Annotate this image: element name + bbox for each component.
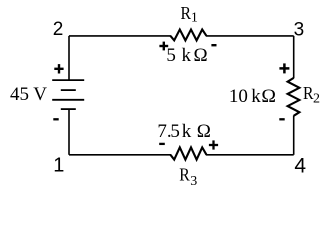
wire bottom-right segment (node 4 to R3): [206, 154, 294, 156]
resistor R2: [288, 78, 300, 116]
svg-text:R: R: [179, 164, 190, 184]
svg-text:3: 3: [294, 20, 305, 41]
wire right upper segment (node 3 to R2): [293, 36, 295, 78]
label R2: [303, 83, 320, 107]
svg-text:10k: 10k: [229, 86, 261, 107]
wire bottom-left segment (R3 to node 1): [69, 154, 171, 156]
svg-text:1: 1: [191, 11, 198, 26]
svg-text:R: R: [181, 3, 192, 23]
svg-text:5kΩ: 5kΩ: [166, 45, 207, 66]
svg-text:7.5kΩ: 7.5kΩ: [157, 121, 211, 142]
resistor R1: [171, 30, 207, 41]
polarity - (R1 right): [211, 44, 216, 46]
label R1: [181, 3, 198, 26]
polarity + (battery top): [54, 64, 63, 73]
polarity + (R2 top): [279, 63, 289, 73]
label R3: [179, 164, 197, 189]
svg-text:4: 4: [294, 155, 306, 178]
svg-text:2: 2: [53, 19, 64, 40]
wire top-left segment (node 2 to R1): [69, 35, 171, 37]
svg-text:2: 2: [313, 92, 320, 107]
wire top-right segment (R1 to node 3): [206, 35, 294, 37]
battery 45 V (plates): [52, 80, 84, 109]
wire right lower segment (R2 to node 4): [293, 116, 295, 155]
value label 10 kΩ: [229, 86, 276, 107]
polarity - (R2 bottom): [279, 118, 284, 120]
svg-text:1: 1: [53, 155, 64, 177]
svg-text:3: 3: [190, 174, 197, 189]
svg-text:Ω: Ω: [261, 86, 276, 107]
polarity - (battery bottom): [53, 118, 58, 120]
svg-text:45V: 45V: [10, 84, 47, 105]
resistor R3: [171, 147, 207, 159]
polarity + (R3 right): [209, 140, 218, 149]
polarity - (R3 left): [159, 143, 165, 145]
wire left upper segment (battery to node 2): [68, 36, 70, 80]
wire left lower segment (node 1 up to battery): [68, 109, 70, 155]
polarity + (R1 left): [159, 42, 168, 51]
